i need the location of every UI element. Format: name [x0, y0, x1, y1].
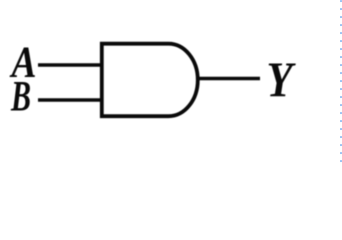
svg-text:B: B: [10, 73, 31, 121]
dotted border right edge: [340, 1, 342, 163]
AND gate U1 body: [102, 44, 198, 117]
node label A: [9, 38, 37, 87]
wire A input: [38, 63, 103, 67]
wire B input: [38, 98, 103, 102]
svg-text:Y: Y: [267, 51, 297, 107]
node label Y: [267, 51, 297, 107]
wire Y output: [196, 77, 260, 81]
node label B: [10, 73, 31, 121]
